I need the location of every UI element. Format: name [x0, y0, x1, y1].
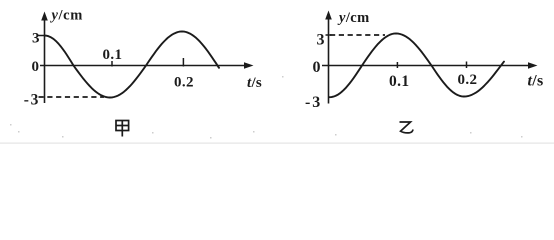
- svg-text:0.2: 0.2: [174, 75, 194, 91]
- left tick 0.2: [182, 58, 184, 67]
- svg-text:t/s: t/s: [528, 73, 544, 90]
- left waveform curve: [45, 32, 220, 98]
- left tick 0.1: [111, 61, 113, 67]
- right tick 0.1: [396, 62, 398, 68]
- left graph t-axis: [40, 65, 247, 67]
- svg-text:-: -: [24, 92, 29, 109]
- right graph t-axis: [322, 65, 531, 67]
- right caption yi (CJK hook glyph): [400, 122, 414, 133]
- svg-text:3: 3: [312, 94, 320, 111]
- left t-axis arrowhead: [244, 62, 254, 69]
- right dashed line at +3: [330, 34, 385, 36]
- right waveform curve: [330, 34, 505, 98]
- right y-axis tick at +3: [326, 34, 332, 36]
- svg-text:t/s: t/s: [247, 75, 262, 91]
- scan artifact: faint bottom edge line: [0, 143, 554, 144]
- left caption jia (CJK box glyph): [116, 121, 129, 137]
- right graph y-axis: [328, 15, 330, 104]
- svg-text:3: 3: [31, 92, 39, 109]
- scan noise specks: [10, 76, 523, 139]
- svg-text:0.1: 0.1: [103, 47, 123, 63]
- right y-axis arrowhead: [325, 11, 332, 20]
- svg-text:0: 0: [32, 59, 40, 75]
- left y-axis tick at +3: [39, 35, 45, 37]
- right tick 0.2: [466, 62, 468, 69]
- right t-axis arrowhead: [528, 62, 538, 69]
- svg-text:0.2: 0.2: [458, 72, 478, 88]
- svg-text:3: 3: [32, 31, 40, 47]
- svg-text:y/cm: y/cm: [337, 10, 370, 26]
- left y-axis arrowhead: [41, 12, 48, 21]
- left graph y-axis: [44, 16, 46, 103]
- svg-text:0: 0: [313, 59, 321, 76]
- left dashed line at -3: [39, 96, 105, 98]
- svg-text:0.1: 0.1: [389, 73, 410, 90]
- svg-text:3: 3: [317, 32, 325, 49]
- svg-text:y/cm: y/cm: [50, 8, 83, 24]
- svg-text:-: -: [305, 94, 310, 111]
